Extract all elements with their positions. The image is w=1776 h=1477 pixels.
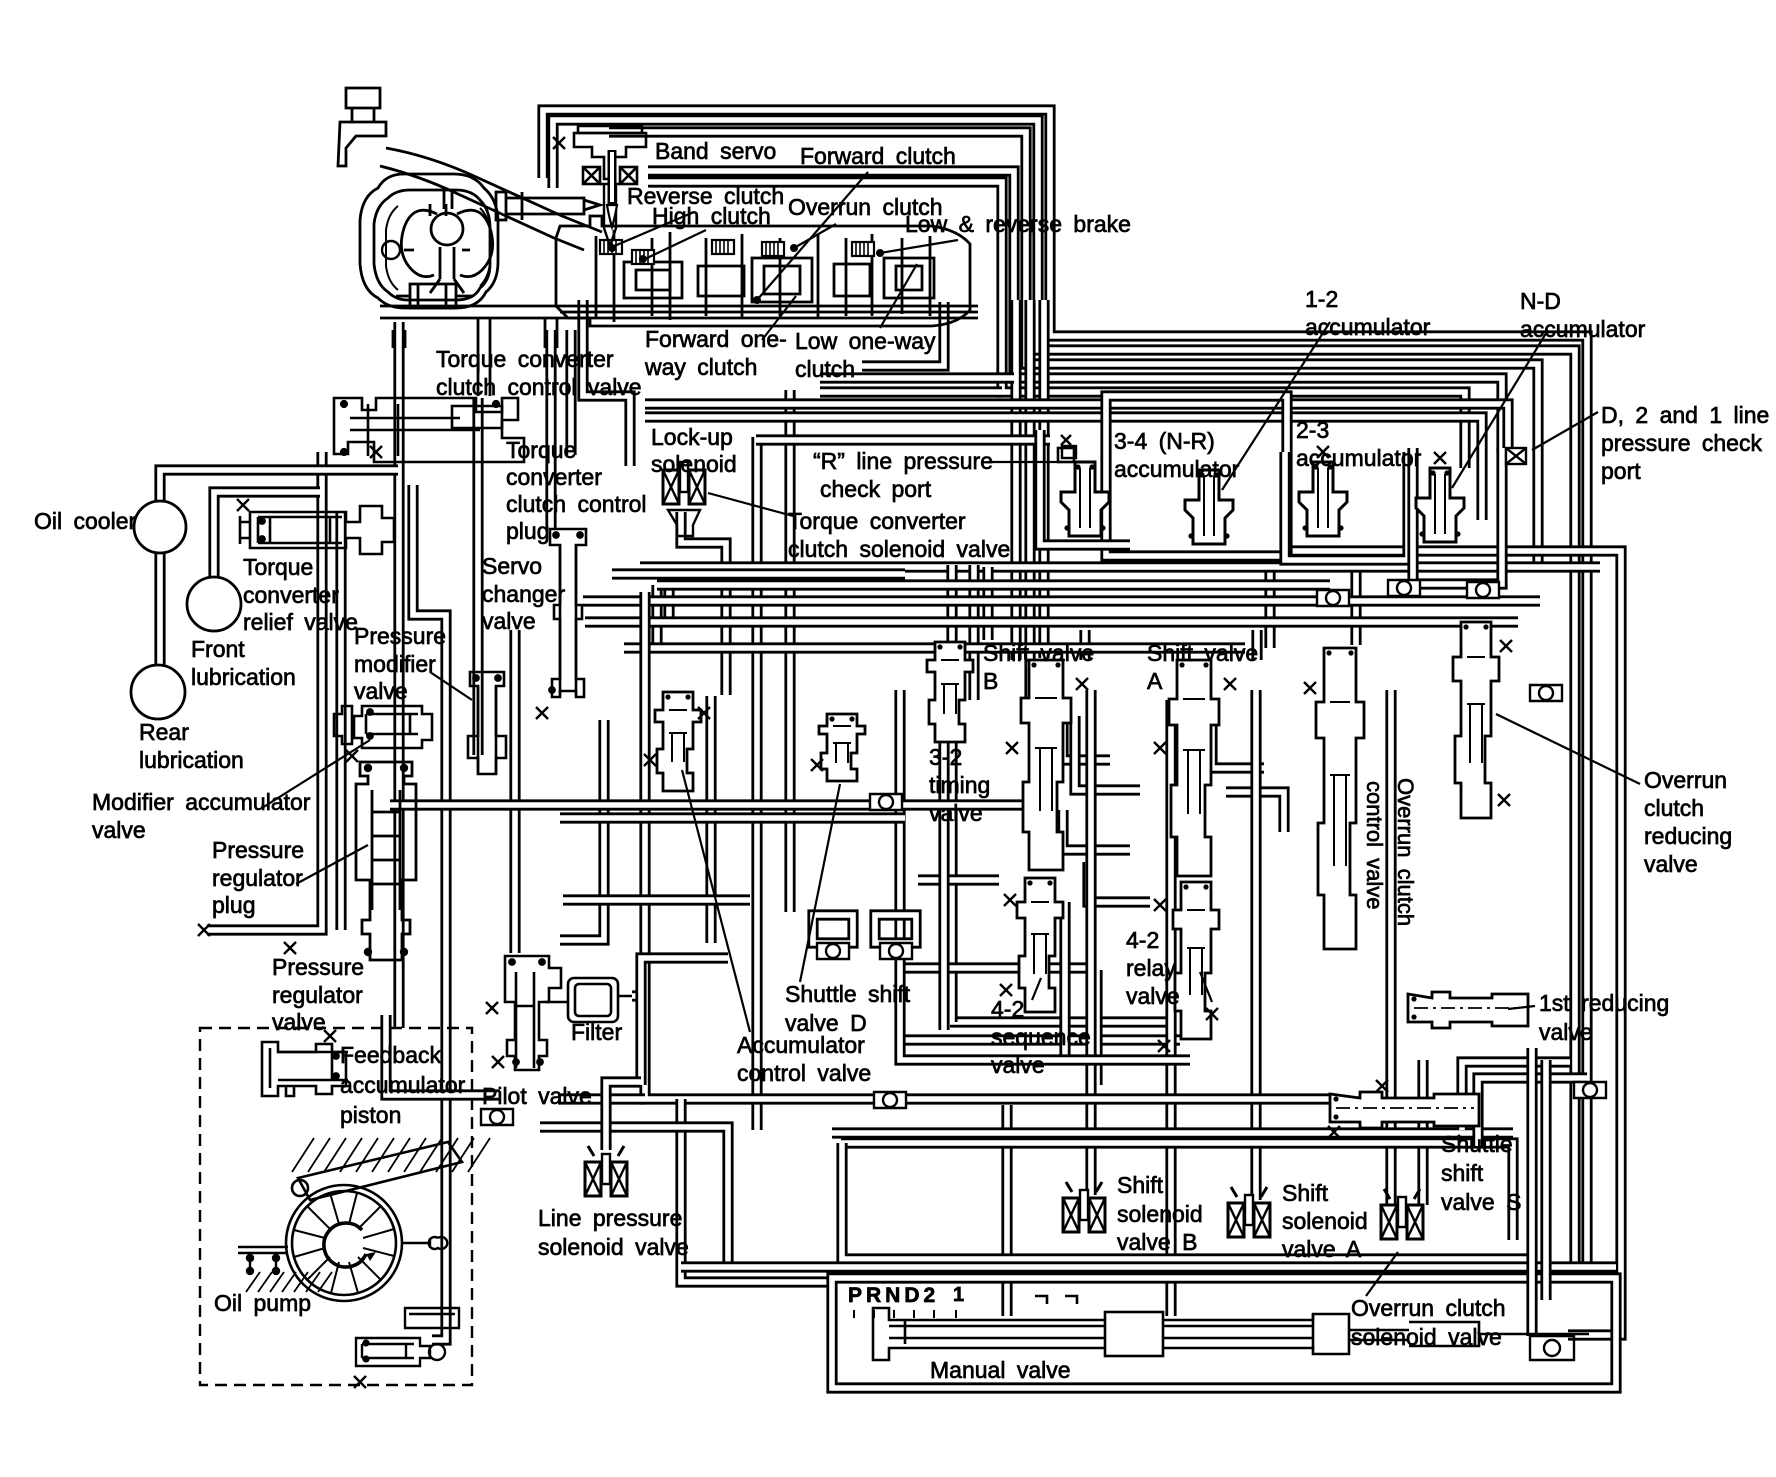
bottom right jog circle	[1530, 1336, 1574, 1360]
wire drop	[784, 390, 795, 912]
pipe flange	[1574, 1082, 1606, 1098]
leader overrun clutch reducing valve	[1496, 714, 1640, 784]
pressure regulator valve assembly	[356, 762, 416, 960]
wire drop to manual valve	[1001, 1105, 1012, 1316]
wire box 2-3 accumulator	[1285, 452, 1408, 560]
wire long mid horizontal	[640, 561, 1600, 572]
svg-text:pressure check: pressure check	[1601, 430, 1762, 456]
svg-text:Low & reverse brake: Low & reverse brake	[905, 211, 1131, 237]
svg-text:solenoid: solenoid	[1117, 1201, 1203, 1227]
svg-text:regulator: regulator	[272, 982, 363, 1008]
wire third top loop to accumulators	[609, 132, 1538, 566]
wire comb elbow 6	[1226, 792, 1284, 832]
leader 1st reducing valve	[1508, 1006, 1535, 1009]
leader forward one-way clutch	[762, 296, 796, 340]
svg-text:clutch: clutch	[795, 356, 855, 382]
modifier accumulator small valve	[334, 706, 352, 744]
wire clutch line right b	[820, 386, 1002, 397]
wire drop to 3-2 timing	[946, 565, 957, 660]
wire bundle drop 3	[1038, 300, 1049, 658]
wire filter out stub	[632, 990, 641, 1001]
svg-text:valve B: valve B	[1117, 1229, 1197, 1255]
svg-text:solenoid valve: solenoid valve	[1351, 1324, 1502, 1350]
wire accumulator control drain	[645, 592, 1335, 1099]
leader torque converter clutch solenoid valve	[708, 493, 793, 516]
accumulator piston 1-2	[1185, 470, 1233, 544]
wire drop	[751, 437, 762, 1130]
leader accumulator control valve	[682, 770, 750, 1032]
svg-text:Torque: Torque	[506, 437, 576, 463]
x mark tcc valve	[370, 446, 382, 458]
leader pressure modifier valve	[430, 672, 472, 700]
leader overrun clutch solenoid valve	[1366, 1252, 1398, 1296]
svg-text:Oil cooler: Oil cooler	[34, 508, 136, 534]
wire horizontal 818	[560, 812, 905, 823]
wire inner bottom loop	[842, 1143, 1530, 1259]
oil pump pivot arm	[292, 1142, 462, 1200]
pipe flange	[481, 1109, 513, 1125]
shift valve B assembly	[1021, 660, 1071, 870]
wire comb elbow 3	[1063, 810, 1130, 850]
svg-text:relief valve: relief valve	[243, 609, 358, 635]
x mark pilot valve upper	[486, 1002, 498, 1014]
leader forward clutch	[757, 172, 868, 300]
shift valve A assembly	[1169, 660, 1219, 876]
svg-text:Manual valve: Manual valve	[930, 1357, 1071, 1383]
svg-text:High clutch: High clutch	[652, 203, 771, 229]
pipe flange	[1388, 580, 1420, 596]
wire overrun solenoid feed	[1417, 1060, 1428, 1205]
pilot valve	[505, 956, 561, 1070]
pump outlet stub right	[402, 1237, 447, 1249]
leader high clutch	[645, 230, 706, 259]
wire main line horizontal	[583, 595, 1540, 606]
svg-text:Forward one-: Forward one-	[645, 326, 787, 352]
svg-text:Torque converter: Torque converter	[788, 508, 966, 534]
pump check piston	[356, 1338, 445, 1366]
wire drop	[540, 1127, 728, 1262]
svg-text:Front: Front	[191, 636, 245, 662]
x mark shift valve B bottom	[1004, 894, 1016, 906]
svg-text:lubrication: lubrication	[139, 747, 244, 773]
wire comb elbow 1	[1063, 700, 1110, 760]
svg-text:Pilot valve: Pilot valve	[482, 1083, 592, 1109]
lock-up solenoid icon	[663, 462, 705, 504]
svg-text:3-2: 3-2	[929, 744, 962, 770]
svg-text:1st reducing: 1st reducing	[1539, 990, 1669, 1016]
x mark pilot valve lower	[492, 1056, 504, 1068]
svg-text:Shift valve: Shift valve	[983, 640, 1094, 666]
svg-text:“R” line pressure: “R” line pressure	[813, 448, 993, 474]
svg-text:accumulator: accumulator	[1114, 456, 1240, 482]
wire drop	[982, 567, 993, 640]
wire drop to modifier area	[472, 398, 483, 755]
shift solenoid valve A icon	[1228, 1195, 1270, 1237]
wire to shuttle shift S	[900, 690, 1190, 1060]
svg-text:converter: converter	[506, 464, 602, 490]
leader 1-2 accumulator	[1222, 322, 1330, 490]
wire front lubrication line	[214, 492, 320, 577]
wire TCC valve drain	[207, 452, 322, 930]
x mark shift valve A top	[1224, 678, 1236, 690]
pipe flange	[870, 794, 902, 810]
clutch pack overrun clutch	[762, 242, 784, 256]
x mark servo changer	[536, 707, 548, 719]
svg-text:Oil pump: Oil pump	[214, 1290, 311, 1316]
wire horizontal 900	[563, 894, 750, 905]
overrun clutch reducing valve	[1453, 622, 1499, 818]
svg-text:Pressure: Pressure	[212, 837, 304, 863]
svg-text:Feedback: Feedback	[340, 1042, 442, 1068]
svg-text:shift: shift	[1441, 1160, 1484, 1186]
band servo piston	[574, 126, 646, 246]
svg-text:Rear: Rear	[139, 719, 189, 745]
svg-text:control valve: control valve	[1362, 781, 1387, 910]
leader pressure regulator plug	[296, 845, 368, 884]
torque converter relief valve	[240, 506, 394, 554]
transmission cross-section outline	[338, 88, 978, 396]
svg-text:Servo: Servo	[482, 553, 542, 579]
x mark shift valve A mid	[1154, 742, 1166, 754]
wire 3-4 accumulator feed	[1040, 430, 1130, 545]
svg-text:1-2: 1-2	[1305, 286, 1338, 312]
leader low & reverse brake	[880, 240, 958, 253]
svg-text:Pressure: Pressure	[272, 954, 364, 980]
accumulator piston 2-3	[1299, 462, 1347, 536]
accumulator control valve icon	[655, 692, 701, 791]
svg-text:plug: plug	[212, 892, 255, 918]
wire label stub B	[1079, 630, 1090, 660]
pump inlet stub left	[238, 1247, 288, 1274]
wire horizontal run	[624, 642, 1245, 653]
pipe flange	[817, 943, 849, 959]
wire forward clutch line	[645, 404, 1508, 448]
wire R line	[756, 434, 1050, 445]
wire pilot line horizontal	[585, 616, 1518, 627]
leader reverse clutch	[612, 212, 694, 247]
svg-text:Accumulator: Accumulator	[737, 1032, 865, 1058]
svg-text:N-D: N-D	[1520, 288, 1561, 314]
check port on 3-4 accumulator	[1062, 446, 1076, 458]
svg-text:valve: valve	[354, 678, 408, 704]
oil sump tray	[405, 1308, 459, 1328]
svg-text:Shift: Shift	[1282, 1180, 1329, 1206]
svg-text:1: 1	[953, 1284, 964, 1306]
leader modifier accumulator valve	[262, 740, 370, 808]
svg-text:accumulator: accumulator	[340, 1072, 466, 1098]
svg-text:Shift valve: Shift valve	[1147, 640, 1258, 666]
wire horizontal to B bottom	[900, 962, 1095, 973]
svg-text:clutch control: clutch control	[506, 491, 647, 517]
wire clutch line right a	[820, 372, 1014, 383]
torque converter clutch control valve	[334, 398, 524, 462]
wire comb elbow 4	[1088, 862, 1150, 902]
svg-text:Pressure: Pressure	[354, 623, 446, 649]
leader shuttle shift valve D	[800, 784, 840, 982]
wire drop below 2-3 box	[1264, 560, 1275, 648]
svg-text:modifier: modifier	[354, 651, 436, 677]
wire comb elbow 2	[1075, 716, 1140, 790]
front lubrication circle	[187, 577, 241, 631]
wire filter riser	[641, 958, 728, 1085]
shuttle shift valve S	[1330, 1092, 1479, 1128]
svg-text:sequence: sequence	[991, 1024, 1091, 1050]
1st reducing valve	[1408, 992, 1528, 1028]
wire drop	[705, 696, 716, 943]
wire drop	[1059, 902, 1070, 1060]
svg-text:regulator: regulator	[212, 865, 303, 891]
wire line to N-D box	[645, 417, 1482, 520]
wire elbow drop to pump outlet	[413, 485, 446, 1340]
wire bundle drop 1	[1010, 300, 1021, 660]
wire drop	[1165, 700, 1176, 1316]
svg-text:plug: plug	[506, 518, 549, 544]
wire box around 3-4 accumulator	[1106, 396, 1287, 556]
svg-text:valve: valve	[92, 817, 146, 843]
svg-text:valve: valve	[991, 1052, 1045, 1078]
oil cooler circle	[134, 501, 186, 553]
wire regulator to pilot	[386, 1015, 500, 1095]
wire elbow right 2	[1478, 1078, 1587, 1146]
wire box N-D accumulator	[1413, 448, 1502, 584]
wire cooler to rear lubrication	[154, 553, 165, 665]
wire timing valve drain	[946, 742, 957, 1022]
svg-text:accumulator: accumulator	[1305, 314, 1431, 340]
svg-text:Overrun: Overrun	[1644, 767, 1727, 793]
feedback accumulator piston icon	[262, 1042, 348, 1096]
svg-text:solenoid: solenoid	[1282, 1208, 1368, 1234]
svg-text:Shuttle: Shuttle	[1441, 1131, 1513, 1157]
svg-text:Shuttle shift: Shuttle shift	[785, 981, 911, 1007]
svg-text:lubrication: lubrication	[191, 664, 296, 690]
leader D 2 1 check port	[1532, 412, 1598, 450]
wire bundle drop 2	[1024, 300, 1035, 700]
wire drop short	[565, 330, 576, 455]
wire drop to pilot valve	[509, 630, 520, 953]
wire comb elbow 5	[1212, 700, 1264, 768]
svg-text:Overrun clutch: Overrun clutch	[1393, 778, 1418, 926]
svg-text:valve A: valve A	[1282, 1236, 1362, 1262]
wire header line 2	[832, 1127, 1513, 1138]
svg-text:clutch: clutch	[1644, 795, 1704, 821]
svg-text:Torque converter: Torque converter	[436, 346, 614, 372]
4-2 sequence valve icon	[1017, 878, 1063, 1012]
wire drop	[968, 565, 979, 700]
manual valve spool	[873, 1296, 1589, 1360]
wire main-line top loop to right edge	[543, 110, 1587, 1278]
svg-text:timing: timing	[929, 772, 990, 798]
shuttle shift valve D icon	[819, 714, 865, 781]
leader 4-2 relay valve	[1200, 972, 1212, 1002]
oil pump rotor	[286, 1185, 402, 1301]
wire band-servo line to check port	[648, 171, 1502, 452]
dashed enclosure oil pump box	[200, 1028, 472, 1385]
wire horizontal above sequence valve	[905, 1034, 1180, 1045]
clutch pack low & reverse brake	[852, 242, 874, 256]
wire long horizontal 805	[390, 799, 1050, 810]
4-2 relay valve icon	[1173, 882, 1219, 1039]
wire drop modifier feed	[335, 512, 346, 930]
pipe flange	[874, 1092, 906, 1108]
svg-text:Modifier accumulator: Modifier accumulator	[92, 789, 311, 815]
wire solenoid row header	[841, 1143, 1513, 1240]
pipe flange	[1317, 590, 1349, 606]
leader low one-way clutch	[880, 264, 917, 328]
wire servo changer out	[560, 720, 604, 940]
leader R line pressure check port	[988, 461, 1062, 463]
leader 4-2 sequence valve	[1032, 978, 1041, 1000]
3-2 timing valve	[927, 642, 973, 742]
x mark regulator line	[198, 924, 210, 936]
wire step elbow a	[651, 585, 662, 648]
pressure modifier valve body	[468, 672, 506, 774]
leader overrun clutch	[794, 224, 836, 248]
svg-text:control valve: control valve	[737, 1060, 871, 1086]
overrun clutch control valve	[1316, 648, 1364, 949]
wire pilot valve out	[558, 1093, 645, 1104]
servo changer valve	[549, 529, 586, 697]
svg-text:Forward clutch: Forward clutch	[800, 143, 956, 169]
svg-text:Shift: Shift	[1117, 1172, 1164, 1198]
svg-text:check port: check port	[820, 476, 932, 502]
wire drop	[1385, 690, 1396, 1205]
svg-text:clutch solenoid valve: clutch solenoid valve	[788, 536, 1010, 562]
svg-text:valve: valve	[272, 1009, 326, 1035]
x mark band servo	[553, 137, 565, 149]
svg-text:piston: piston	[340, 1102, 401, 1128]
x mark regulator line 2	[284, 942, 296, 954]
wire left drop to manual rect	[681, 1099, 832, 1282]
x mark below pump piston	[354, 1376, 366, 1388]
wire lock-up solenoid drain	[681, 512, 726, 695]
svg-text:accumulator: accumulator	[1520, 316, 1646, 342]
wire line pressure solenoid feed	[606, 1082, 641, 1150]
svg-text:A: A	[1147, 668, 1163, 694]
wire short stub	[918, 874, 999, 885]
svg-text:clutch control valve: clutch control valve	[436, 374, 642, 400]
clutch pack high clutch	[632, 250, 654, 264]
filter	[545, 978, 632, 1022]
svg-text:valve: valve	[1539, 1019, 1593, 1045]
hatching left support	[246, 1272, 332, 1292]
x mark feedback accumulator	[324, 1030, 336, 1042]
wire horizontal 2	[950, 1016, 1170, 1027]
svg-text:reducing: reducing	[1644, 823, 1732, 849]
check port square R line	[1058, 448, 1074, 462]
check port D 2 and 1	[1506, 448, 1526, 464]
svg-text:accumulator: accumulator	[1296, 445, 1422, 471]
wire drop to servo changer	[545, 330, 556, 528]
svg-text:way clutch: way clutch	[644, 354, 757, 380]
wire shift solenoid A feed	[1250, 690, 1261, 1200]
accumulator piston N-D	[1416, 468, 1464, 542]
svg-text:solenoid: solenoid	[651, 451, 737, 477]
svg-text:Filter: Filter	[571, 1019, 622, 1045]
wire loop flange left	[813, 915, 853, 943]
svg-text:Lock-up: Lock-up	[651, 424, 733, 450]
clutch pack overrun clutch (fwd)	[712, 240, 734, 254]
svg-text:Band servo: Band servo	[655, 138, 776, 164]
svg-text:changer: changer	[482, 581, 565, 607]
wire step elbow b	[663, 578, 674, 626]
PRND detent ticks	[854, 1310, 956, 1318]
svg-text:valve: valve	[482, 608, 536, 634]
svg-text:Low one-way: Low one-way	[795, 328, 936, 354]
wire right drop to corner	[1526, 1048, 1537, 1336]
wire right inner loop	[1292, 551, 1621, 1335]
rear lubrication circle	[131, 665, 185, 719]
svg-text:relay: relay	[1126, 955, 1176, 981]
svg-text:valve: valve	[1644, 851, 1698, 877]
accumulator piston 3-4 (N-R)	[1061, 462, 1109, 536]
x mark shift valve B top	[1076, 678, 1088, 690]
pipe flange	[1530, 685, 1562, 701]
svg-text:Torque: Torque	[243, 554, 313, 580]
svg-text:Overrun clutch: Overrun clutch	[1351, 1295, 1506, 1321]
hatching above pivot arm	[292, 1138, 490, 1172]
svg-text:4-2: 4-2	[991, 996, 1024, 1022]
wire elbow right 1	[1462, 1062, 1570, 1130]
x mark shift valve A bottom	[1154, 899, 1166, 911]
svg-text:Line pressure: Line pressure	[538, 1205, 682, 1231]
x mark regulator top	[346, 750, 358, 762]
pipe flange	[880, 943, 912, 959]
wire low one-way line	[862, 302, 944, 366]
clutch pack reverse clutch	[600, 240, 622, 254]
wire horizontal run left	[612, 568, 905, 579]
svg-text:4-2: 4-2	[1126, 927, 1159, 953]
wire drop	[1091, 970, 1102, 1085]
wire to N-D accumulator	[648, 182, 1465, 468]
wire horizontal run	[657, 579, 1330, 590]
svg-text:port: port	[1601, 458, 1641, 484]
overrun clutch solenoid valve icon	[1381, 1197, 1423, 1239]
wire drop	[938, 690, 949, 1030]
svg-text:B: B	[983, 668, 998, 694]
leader N-D accumulator	[1452, 330, 1548, 488]
wire drop	[1350, 562, 1361, 645]
wire loop flange right	[875, 915, 916, 943]
x mark shift valve B mid	[1006, 742, 1018, 754]
wire long bottom line	[681, 1261, 1616, 1272]
svg-text:3-4 (N-R): 3-4 (N-R)	[1114, 428, 1215, 454]
wire to lock-up solenoid	[583, 300, 630, 466]
wire drop to oil pump box	[393, 322, 404, 1028]
shift solenoid valve B icon	[1063, 1190, 1105, 1232]
svg-text:2-3: 2-3	[1296, 417, 1329, 443]
wire shift solenoid B feed	[1085, 690, 1096, 1195]
svg-text:D, 2 and 1 line: D, 2 and 1 line	[1601, 402, 1769, 428]
wire label stub A	[1251, 630, 1262, 660]
pipe flange	[1467, 582, 1499, 598]
svg-text:valve: valve	[1126, 983, 1180, 1009]
svg-text:PRND2: PRND2	[848, 1284, 939, 1307]
wire manual valve enclosure	[832, 1278, 1616, 1388]
line pressure solenoid valve icon	[585, 1154, 627, 1196]
svg-text:valve: valve	[929, 800, 983, 826]
svg-text:solenoid valve: solenoid valve	[538, 1234, 689, 1260]
svg-text:converter: converter	[243, 582, 339, 608]
x mark relief valve	[237, 499, 249, 511]
svg-text:valve S: valve S	[1441, 1189, 1521, 1215]
wire second top loop	[553, 120, 1575, 1267]
pressure modifier valve piston	[354, 706, 432, 748]
wire oil cooler supply	[160, 470, 398, 501]
wire right drop 2	[1540, 1060, 1551, 1300]
